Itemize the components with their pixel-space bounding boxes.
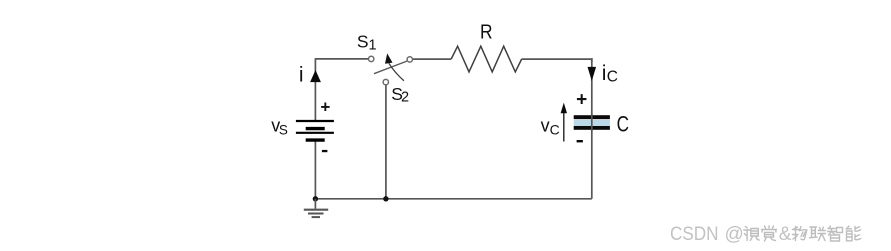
- svg-text:+: +: [576, 90, 587, 111]
- svg-text:CSDN: CSDN: [670, 224, 719, 245]
- svg-text:S: S: [279, 123, 288, 138]
- svg-text:C: C: [607, 68, 618, 85]
- svg-text:C: C: [617, 112, 629, 137]
- svg-text:+: +: [320, 98, 330, 117]
- svg-text:v: v: [541, 115, 550, 135]
- svg-text:R: R: [480, 21, 493, 44]
- svg-text:2: 2: [401, 89, 409, 105]
- svg-text:1: 1: [369, 37, 377, 53]
- svg-text:S: S: [357, 32, 369, 52]
- svg-text:&: &: [779, 224, 792, 245]
- svg-text:C: C: [550, 122, 560, 138]
- svg-text:i: i: [299, 64, 304, 87]
- svg-text:@: @: [725, 224, 744, 245]
